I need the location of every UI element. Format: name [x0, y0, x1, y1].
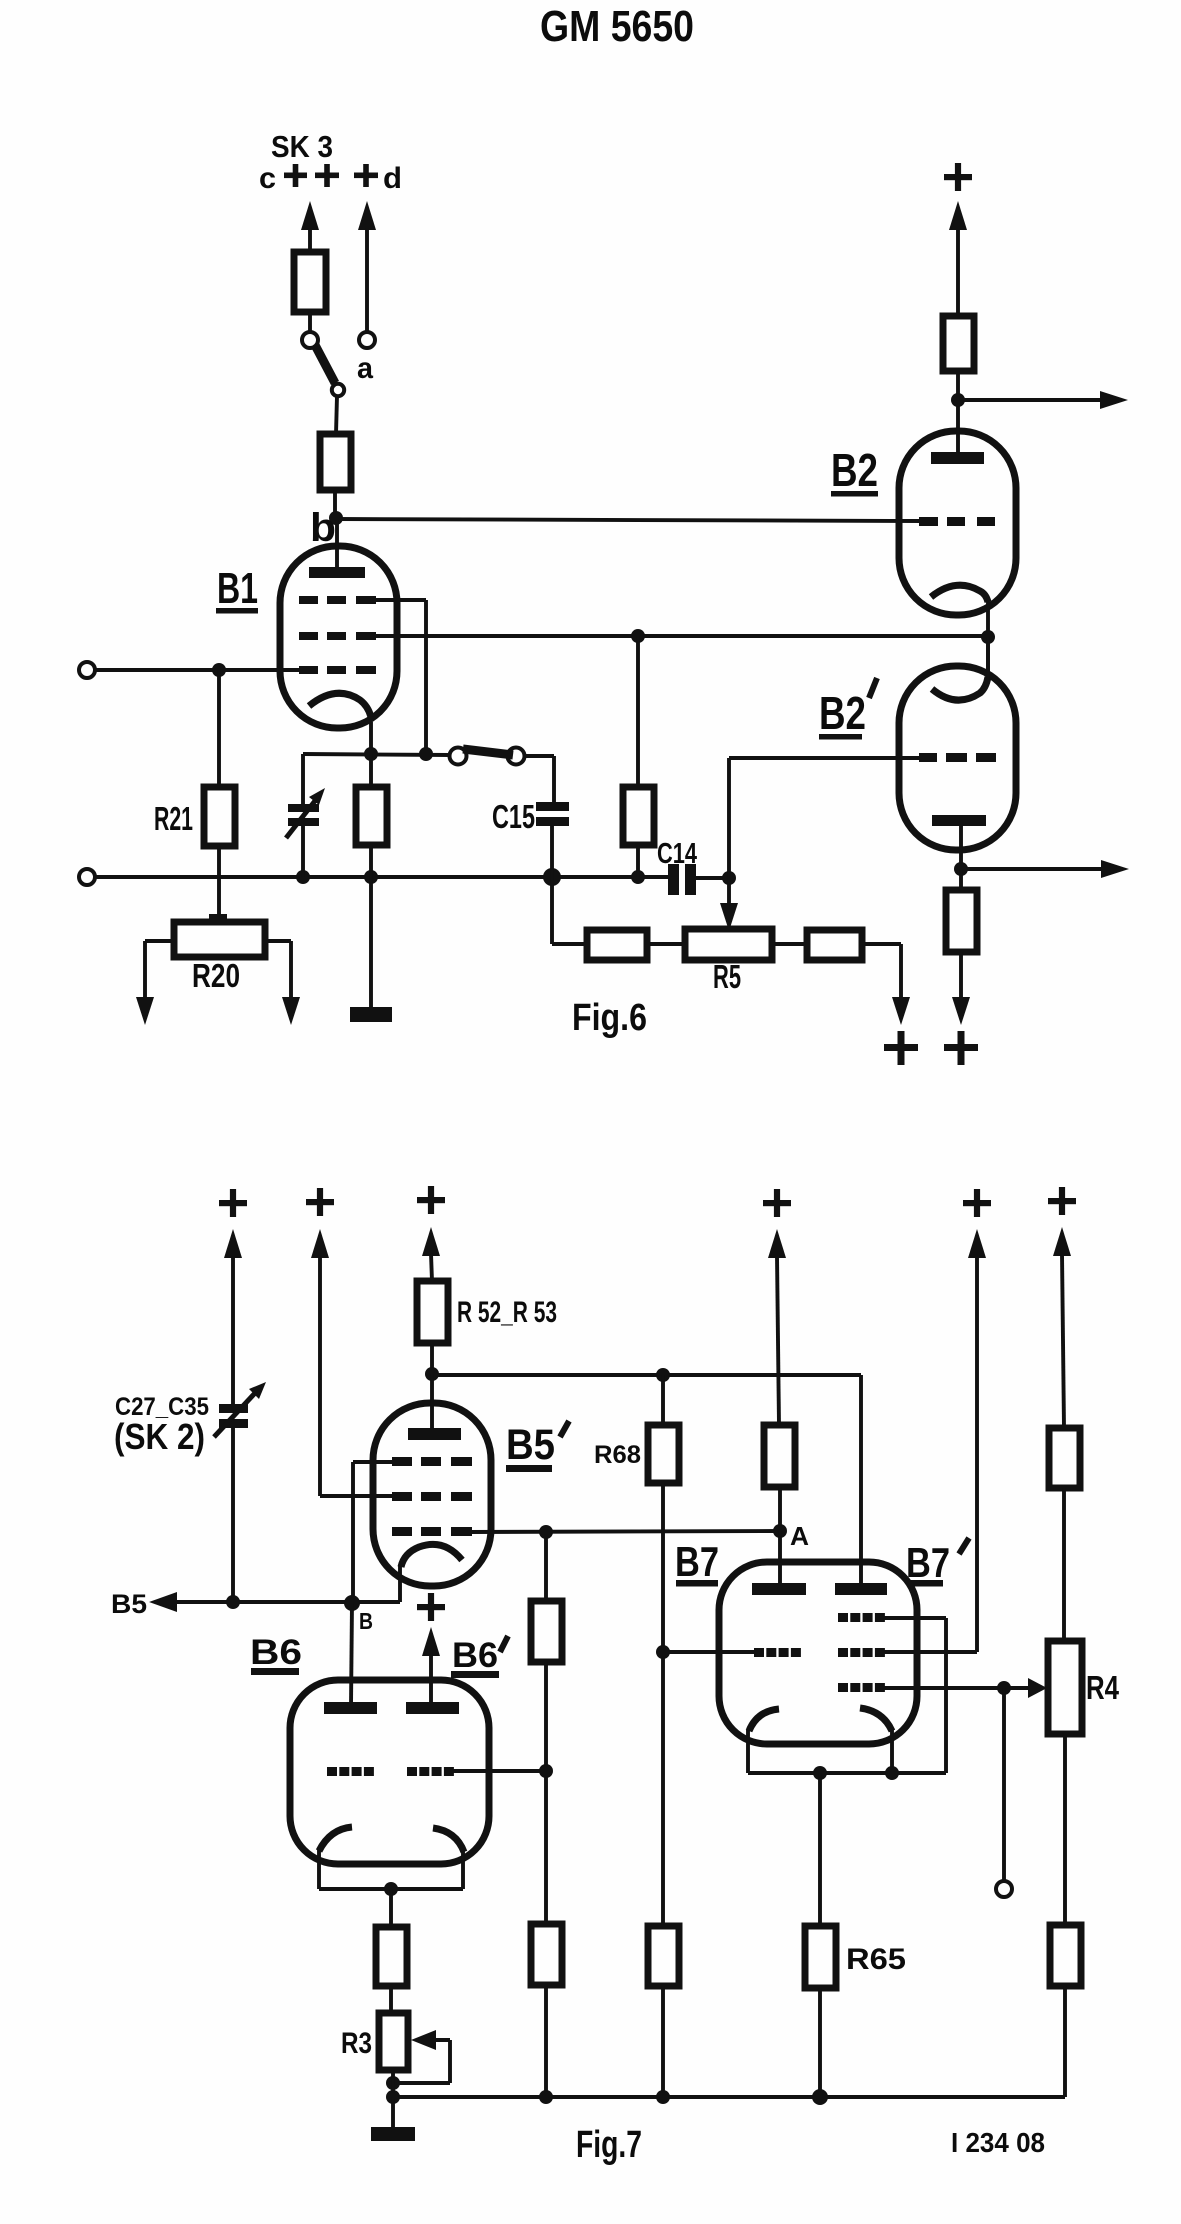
node B7 cathode / R65: [813, 1766, 827, 1780]
supply plus (C27 column): [219, 1189, 247, 1217]
node B5' grid3 divider: [539, 1525, 553, 1539]
wire B5' grid3 to node A: [470, 1531, 780, 1532]
wire lower bus: [95, 875, 670, 879]
svg-text:B6: B6: [452, 1636, 498, 1675]
tube B2' anode: [932, 815, 986, 869]
switch SK3 arm: [315, 345, 335, 383]
wire R20 right to arrow: [265, 941, 300, 1025]
contact plus 2: [315, 164, 339, 187]
svg-text:B5: B5: [111, 1589, 147, 1619]
tube B1 grid 3 (bottom row): [299, 666, 376, 674]
svg-text:R68: R68: [594, 1441, 641, 1469]
svg-text:R20: R20: [192, 957, 240, 994]
label Fig.7: [576, 2124, 642, 2166]
potentiometer R5: [685, 929, 772, 995]
switch SK3 label: [271, 129, 333, 164]
switch SK3 contact c: [302, 332, 318, 348]
potentiometer R3: [341, 2013, 408, 2070]
svg-text:d: d: [383, 162, 402, 195]
svg-text:R65: R65: [846, 1943, 906, 1976]
wire node A to B7 anode: [778, 1531, 782, 1587]
node bus (R65): [812, 2089, 828, 2105]
wire node to B2' grid: [729, 758, 922, 878]
node b: [310, 506, 343, 550]
supply plus (B7' grid2): [963, 1189, 991, 1217]
resistor (grid stopper above b): [320, 434, 351, 490]
svg-text:C15: C15: [492, 798, 535, 835]
wire: [772, 942, 807, 946]
resistor (B2 anode load): [943, 316, 974, 400]
tube B6 anode left: [324, 1702, 377, 1714]
resistor (R5 chain right): [807, 930, 862, 960]
tube B7 cathode right: [860, 1708, 892, 1731]
switch SK3 contact d: [359, 332, 375, 348]
tube B2' cathode: [932, 637, 988, 700]
tube B5' cathode: [352, 1544, 462, 1602]
svg-text:B6: B6: [250, 1633, 302, 1672]
wire R68 to B7 grid: [661, 1483, 665, 1926]
svg-text:B5: B5: [506, 1421, 555, 1469]
tube B7 cathode left: [749, 1709, 779, 1731]
triode B2 label: [831, 444, 878, 497]
supply arrow (C27 column): [224, 1229, 242, 1405]
node B6' grid: [539, 1764, 553, 1778]
svg-text:B1: B1: [217, 564, 258, 613]
node R52 / B5' anode: [425, 1367, 439, 1381]
svg-text:R5: R5: [713, 958, 741, 995]
svg-text:GM 5650: GM 5650: [540, 2, 694, 51]
resistor (B2' anode load): [946, 869, 977, 952]
node grid1 corner: [419, 747, 433, 761]
wire R52 to node: [430, 1343, 434, 1374]
wire resistor to node b: [333, 490, 337, 518]
node B7 grid: [656, 1645, 756, 1659]
capacitor C15: [492, 798, 569, 877]
svg-text:R21: R21: [154, 800, 193, 837]
svg-text:B7: B7: [906, 1539, 950, 1586]
supply arrow (B2): [949, 201, 967, 316]
ground (Fig.7): [371, 2097, 415, 2141]
wire B7' grid1 to cathode: [884, 1618, 946, 1773]
triode-pentode B1 label: [216, 564, 258, 614]
svg-text:C14: C14: [657, 838, 697, 870]
switch (C15 shorting) contact right: [508, 748, 525, 765]
output arrow (B2' anode): [961, 860, 1129, 878]
resistor R21: [154, 787, 235, 846]
wire chain right to supply: [862, 944, 910, 1025]
tube B5' grid 1: [392, 1457, 472, 1466]
tube B1 envelope: [280, 546, 397, 728]
tube B5' anode: [408, 1374, 461, 1440]
potentiometer R4: [1048, 1641, 1120, 1734]
svg-text:Fig.6: Fig.6: [572, 997, 647, 1039]
double triode B6 label: [250, 1633, 302, 1675]
wire B7 cathodes bus: [748, 1730, 946, 1773]
node C15 bottom: [543, 868, 561, 886]
divider column resistor lower: [531, 1924, 562, 2097]
wire B1 grid2 to B2 cathode: [374, 634, 988, 638]
svg-text:B7: B7: [675, 1538, 719, 1585]
tube B2' grid: [919, 753, 996, 762]
wiper R3: [393, 2030, 450, 2083]
svg-text:Fig.7: Fig.7: [576, 2124, 642, 2166]
wire B2 cathode to B2' cathode: [986, 637, 990, 676]
tube B7' grid1 row: [838, 1613, 885, 1622]
svg-text:A: A: [790, 1521, 809, 1551]
wire R21 to R20 wiper: [217, 846, 221, 918]
label (SK 2): [114, 1416, 205, 1457]
trimmer capacitor C27_C35: [214, 1382, 266, 1602]
input terminal (grid 3): [79, 662, 95, 678]
tube B5' grid 2: [392, 1492, 472, 1501]
label Fig.6: [572, 997, 647, 1039]
wire node to R21: [217, 670, 221, 787]
wire node b to B2 grid: [336, 519, 921, 521]
label sheet number I 234 08: [951, 2127, 1045, 2158]
supply plus (B2): [944, 163, 972, 191]
tube B7' grid2 row: [838, 1648, 885, 1657]
supply arrow (B7 anode column): [768, 1229, 786, 1425]
node A: [773, 1521, 809, 1551]
node C27 bottom: [226, 1595, 240, 1609]
wire B6 cathodes join: [319, 1850, 463, 1889]
double triode B6' label: [451, 1636, 508, 1678]
tube B2 grid: [919, 517, 995, 526]
double pentode B7 label: [675, 1538, 719, 1587]
output arrow B5: [111, 1589, 355, 1619]
capacitor C14: [657, 838, 729, 895]
switch SK3 pivot: [332, 384, 344, 396]
tube B6 cathode left: [319, 1827, 352, 1851]
node R3 bottom: [386, 2070, 400, 2097]
svg-text:c: c: [259, 162, 276, 195]
cathode bus of B1: [303, 754, 450, 755]
node B2 anode: [951, 393, 965, 407]
tube B1 grid 1 (top row): [299, 596, 376, 604]
node cathode resistor bottom: [364, 870, 378, 884]
supply plus (R52 column): [417, 1186, 445, 1214]
supply plus (B7 anode column): [763, 1189, 791, 1217]
tube B1 cathode: [309, 693, 371, 754]
resistor (R4 column upper): [1049, 1428, 1080, 1641]
svg-text:B: B: [359, 1608, 373, 1634]
potentiometer R20: [174, 914, 265, 994]
resistor (R5 chain left): [587, 930, 647, 960]
contact plus 1: [284, 164, 307, 187]
tube B6 grid right: [407, 1767, 454, 1776]
output arrow (B2 anode): [958, 391, 1128, 409]
divider column (B5' grid3) resistor upper: [531, 1532, 562, 1662]
svg-text:a: a: [357, 352, 373, 385]
svg-text:SK 3: SK 3: [271, 129, 333, 164]
wire: [647, 942, 685, 946]
node bus (R68 column): [656, 2090, 670, 2104]
wire R20 left to arrow: [136, 941, 174, 1025]
node a label: [357, 352, 373, 385]
resistor R52_R53: [417, 1281, 557, 1343]
tube B6 cathode right: [433, 1828, 464, 1852]
node R68 top: [656, 1368, 670, 1382]
tube B7 grid left row: [754, 1648, 801, 1657]
tube B7' grid3 row: [838, 1683, 885, 1692]
ground (B1 cathode): [350, 877, 392, 1022]
node B6 cathode: [384, 1882, 398, 1896]
tube B5' envelope: [373, 1403, 491, 1586]
tube B2 envelope: [899, 431, 1016, 615]
resistor R65: [805, 1773, 906, 2097]
supply arrow to d: [358, 201, 376, 331]
tube B7 envelope: [719, 1562, 917, 1744]
wire node B to B6 anode: [351, 1603, 352, 1706]
node B2 cathode / B2': [981, 630, 995, 644]
node B7' cathode: [885, 1766, 899, 1780]
open terminal (R4 wiper): [996, 1881, 1012, 1897]
tube B2 cathode: [931, 585, 988, 637]
tube B5' grid 3: [392, 1527, 472, 1536]
supply plus (R4 column): [1048, 1187, 1076, 1215]
wire node to terminal: [1002, 1688, 1006, 1881]
supply arrow to c: [301, 201, 319, 252]
supply plus (B2' load): [944, 1031, 978, 1065]
label C27_C35: [115, 1393, 209, 1421]
tube B6 anode right: [406, 1702, 459, 1714]
bottom bus wire: [393, 2095, 1065, 2099]
tube B1 grid 2 (middle row): [299, 632, 376, 640]
supply arrow (R52 column): [422, 1227, 440, 1281]
resistor (B2 screen feed): [623, 636, 654, 877]
switch (C15 shorting) contact left: [450, 748, 467, 765]
svg-text:I 234 08: I 234 08: [951, 2127, 1045, 2158]
resistor R68: [594, 1375, 679, 1483]
resistor (B1 cathode): [356, 754, 387, 877]
pentode B5' label: [506, 1421, 569, 1472]
svg-text:R4: R4: [1086, 1669, 1120, 1706]
tube B2' envelope: [899, 666, 1016, 850]
resistor (series, SK3 c branch): [294, 252, 326, 312]
input terminal (lower): [79, 869, 95, 885]
wiper arrow into R5: [720, 878, 738, 931]
node d label: [383, 162, 402, 195]
resistor (R4 column lower): [1050, 1925, 1081, 2097]
switch (C15 shorting) arm: [463, 749, 513, 755]
wire terminal to B1 grid3: [95, 668, 310, 672]
node trimmer bottom: [296, 870, 310, 884]
node bus left: [386, 2090, 400, 2104]
node cathode/resistor: [364, 747, 378, 761]
node R4 wiper: [997, 1681, 1011, 1695]
wire B1 grid1 to cathode bus: [374, 600, 426, 754]
wire divider middle: [544, 1662, 548, 1924]
resistor (B7 anode load): [764, 1425, 795, 1531]
node B1 grid2 / anode resistor: [631, 629, 645, 643]
svg-text:(SK 2): (SK 2): [114, 1416, 205, 1457]
supply arrow (B5' grid2 column): [311, 1229, 392, 1496]
supply plus (R5 chain): [884, 1031, 918, 1065]
supply arrow (B7' grid2): [968, 1229, 986, 1258]
resistor (B6 cathode): [376, 1889, 407, 2013]
svg-text:R 52_R 53: R 52_R 53: [457, 1296, 557, 1329]
wire pivot to resistor: [336, 396, 337, 434]
supply arrow (B6' anode): [422, 1627, 440, 1706]
tube B6 grid left: [327, 1767, 374, 1776]
tube B2 anode: [931, 400, 984, 464]
node C14 right: [722, 871, 736, 885]
wire resistor to contact: [308, 312, 312, 331]
trimmer capacitor (C, B1 cathode): [286, 754, 325, 877]
resistor (R68 column lower): [648, 1926, 679, 2097]
node c label: [259, 162, 276, 195]
supply plus (B6' anode): [417, 1593, 445, 1621]
svg-text:B2: B2: [819, 687, 866, 739]
svg-text:R3: R3: [341, 2027, 372, 2060]
wiper arrow into R4: [1028, 1678, 1047, 1698]
wire B7' grid2 to supply: [884, 1258, 977, 1652]
wire B6' grid to divider: [452, 1769, 546, 1773]
supply arrow (B2' load): [952, 952, 970, 1025]
tube B1 anode: [309, 520, 365, 578]
wire switch to C15: [524, 756, 554, 804]
svg-text:B2: B2: [831, 444, 878, 496]
node R21 top: [212, 663, 226, 677]
contact plus 3: [354, 164, 378, 187]
node bus (divider): [539, 2090, 553, 2104]
wire B7' grid3 to R4 wiper: [884, 1686, 1029, 1690]
wire R4 to lower resistor: [1063, 1734, 1067, 1925]
title GM5650: [540, 2, 694, 51]
wire supply rail to B7' anode: [432, 1375, 861, 1586]
node B: [344, 1595, 373, 1634]
wire B5' grid1 to node B: [353, 1462, 392, 1602]
tube B6 envelope: [290, 1680, 489, 1864]
wire C15 bottom to R5 chain: [552, 877, 587, 944]
node B2' anode: [954, 862, 968, 876]
tube B7 anode left: [752, 1583, 806, 1595]
tube B7 anode right: [835, 1583, 887, 1595]
triode B2' label: [819, 678, 877, 740]
supply arrow (R4 column): [1053, 1227, 1071, 1428]
double pentode B7' label: [906, 1538, 969, 1587]
node anode resistor bottom: [631, 870, 645, 884]
supply plus (B5' grid2 column): [306, 1188, 334, 1216]
